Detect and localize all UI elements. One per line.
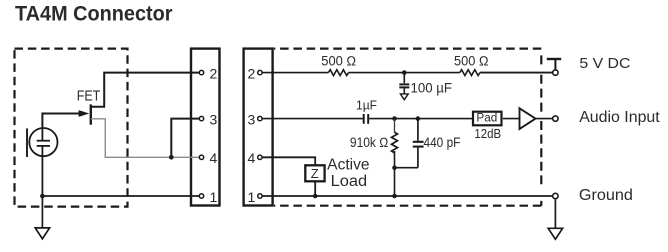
wire C2 to node B [369,118,394,120]
ground (left) [35,228,49,239]
wire R1 to node A [349,72,405,74]
junction on ground rail [392,194,397,199]
svg-text:4: 4 [248,150,256,166]
svg-text:Ground: Ground [579,187,633,204]
node B junction [392,116,397,121]
junction Z ground [313,194,318,199]
ground mini arrow under C1 [400,94,408,100]
svg-text:440 pF: 440 pF [424,135,461,150]
pin 2 contact (J2) [258,70,262,74]
ground (right) [548,228,562,239]
C1 plate bottom [399,86,409,88]
svg-text:12dB: 12dB [474,127,501,141]
microphone element M1 [29,128,57,156]
connector J2 body (right) [244,49,273,206]
wire mic gate [42,114,79,129]
wire FET source to pin 4 (gray) [91,119,200,158]
svg-text:500 Ω: 500 Ω [321,53,356,68]
ground terminal circle [553,193,558,198]
mic diaphragm bar [26,128,28,157]
preamp dashed enclosure top edge [274,47,541,49]
wire node C to pad [418,118,474,120]
wire amp to audio terminal [536,118,553,120]
mic internal top stub [41,128,43,140]
5V terminal tee [547,58,561,60]
C1 plate top [399,83,409,85]
C1 lower lead [403,88,405,94]
svg-text:3: 3 [210,111,218,127]
capacitor C3 440pF upper lead [417,119,419,141]
junction pins 3-4 tie [169,155,174,160]
resistor R2 500 ohm [460,70,480,76]
C3 plate bottom [413,146,424,148]
pin 1 contact (J1) [199,194,203,198]
connector J1 body (left) [191,49,220,206]
C3 plate top [413,141,424,143]
resistor R3 910k body [392,132,398,153]
C3 lower lead [417,148,419,168]
wire pad to amp [503,118,520,120]
pin 2 contact (J1) [199,70,203,74]
wire pin 1 rail (left) [42,195,199,197]
mic element dashed enclosure [15,49,128,207]
wire C3 bottom to R3 bottom [395,167,418,169]
wire node A to R2 [404,72,460,74]
svg-text:Active: Active [327,157,369,174]
svg-text:100 µF: 100 µF [411,81,453,96]
svg-text:Load: Load [331,173,368,190]
svg-text:5 V DC: 5 V DC [579,55,630,72]
wire FET drain to pin 2 [91,73,200,107]
resistor R1 500 ohm [328,70,348,76]
wire to right ground [554,199,556,229]
svg-text:2: 2 [248,65,256,81]
wire ground rail (right) [261,195,553,197]
pin 1 contact (J2) [258,194,262,198]
junction mic ground [40,194,45,199]
svg-text:500 Ω: 500 Ω [454,54,489,69]
mic plate top [37,140,50,142]
audio terminal circle [553,116,558,121]
5V terminal circle [553,70,558,75]
wire node D to ground rail [394,168,396,196]
resistor R3 910k upper lead [394,119,396,133]
svg-text:Pad: Pad [476,112,497,124]
pin 3 contact (J1) [199,116,203,120]
svg-text:1µF: 1µF [356,98,377,112]
svg-text:4: 4 [210,150,218,166]
wire R2 to 5V terminal [480,72,553,74]
node C junction [416,116,421,121]
svg-text:TA4M Connector: TA4M Connector [15,3,173,26]
gate arrowhead [79,110,90,117]
transistor FET channel bar [90,104,92,124]
R3 lower lead [394,151,396,168]
pin 4 contact (J2) [258,155,262,159]
svg-text:910k Ω: 910k Ω [350,135,389,150]
svg-text:3: 3 [248,111,256,127]
preamp dashed enclosure bottom edge [274,205,541,207]
pad attenuator U1 box [473,112,502,126]
pin 4 contact (J1) [199,155,203,159]
capacitor C1 100uF lead [403,73,405,84]
pin 3 contact (J2) [258,116,262,120]
node D junction [392,165,397,170]
wire to left ground [41,196,43,228]
amplifier A1 [520,108,536,129]
wire pin4 to active load [260,157,315,166]
active load Z box [305,165,324,181]
mic plate bottom [37,145,50,147]
wire mic to ground rail [41,146,43,196]
svg-text:FET: FET [77,89,101,105]
svg-text:1: 1 [210,189,218,205]
svg-text:1: 1 [248,189,256,205]
preamp dashed enclosure right edge [540,55,542,205]
svg-text:Z: Z [311,166,319,181]
svg-text:2: 2 [210,65,218,81]
svg-text:Audio Input: Audio Input [579,109,660,126]
node A junction [402,70,407,75]
wire audio rail: pin3 to C2 [260,118,363,120]
wire pin 3 to pin 4 tie [171,119,199,158]
wire 5V rail: pin2 to R1 [260,72,329,74]
wire node B to node C [395,118,418,120]
capacitor C2 1uF plates [363,114,365,124]
wire Z box to ground rail [314,181,316,196]
